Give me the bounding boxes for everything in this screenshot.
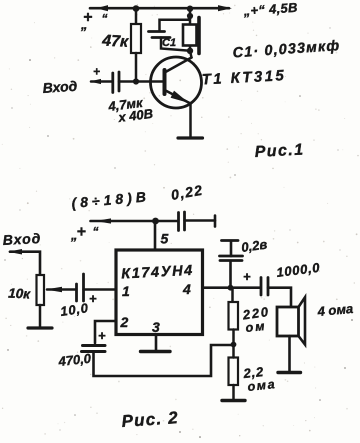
wire: C4 to pin 1 — [84, 288, 117, 291]
potentiometer wiper arrowhead — [46, 287, 63, 292]
ground (R5) — [222, 399, 245, 402]
wire: C1 bottom loop — [161, 38, 190, 51]
svg-text:5: 5 — [161, 231, 169, 247]
wire: emitter to ground — [189, 103, 192, 137]
svg-text:Рис. 2: Рис. 2 — [121, 408, 179, 431]
label: „+" near left arrow — [80, 9, 108, 32]
wire: pin 5 lead — [154, 221, 157, 250]
svg-text:Вход: Вход — [2, 230, 41, 248]
capacitor C4 10,0 plates — [75, 284, 78, 301]
svg-text:2: 2 — [120, 314, 129, 330]
wire: 0,2 cap upper lead — [230, 241, 233, 256]
transistor T1 base bar — [163, 70, 167, 94]
capacitor C1 bottom plate — [152, 36, 170, 39]
wire: speaker to ground — [288, 336, 291, 371]
node: supply / pin5 junction — [152, 218, 159, 225]
capacitor C6 0,2 bottom plate — [220, 259, 242, 262]
resistor R5 2,2 body — [229, 358, 239, 386]
svg-text:10к: 10к — [8, 286, 32, 302]
svg-text:+: + — [98, 328, 106, 343]
svg-text:3: 3 — [152, 319, 160, 335]
svg-text:4 ома: 4 ома — [316, 301, 354, 319]
resistor R4 220 ом body — [229, 302, 239, 330]
capacitor C3 0,22 plates — [177, 213, 180, 231]
label: „+" fig2 — [70, 224, 99, 243]
wire: pin 2 lead — [95, 321, 116, 343]
label: „+" 4,5В supply voltage — [242, 0, 298, 19]
capacitor C2 4,7мк x 40В plates — [111, 73, 114, 93]
speaker BA1 body — [277, 307, 299, 336]
wire: C5 bottom to feedback node — [94, 345, 233, 376]
wire: R5 to ground — [232, 385, 235, 400]
wire: R4 to feedback node — [232, 330, 235, 345]
svg-text:Вход: Вход — [42, 78, 78, 96]
terminal bar above 0,2 cap — [222, 239, 239, 242]
capacitor C6 0,2 top plate — [220, 255, 243, 258]
node: rail / R1 junction — [133, 5, 140, 12]
node: feedback junction — [231, 342, 237, 348]
terminal bar at 0,22 lead end — [214, 216, 217, 227]
wire: fig2 supply lead — [91, 220, 179, 223]
transistor T1 КТ315 circle — [151, 57, 202, 108]
wire: R2 to collector node — [189, 46, 192, 51]
svg-text:+: + — [243, 269, 251, 284]
svg-text:1: 1 — [122, 283, 130, 299]
wire: node to R5 — [232, 345, 235, 358]
wire: 0,22 right lead — [185, 219, 216, 222]
wire: pot to ground — [39, 305, 42, 327]
capacitor C1 top plate — [149, 30, 165, 33]
speaker BA1 cone — [299, 297, 306, 344]
svg-text:С1: С1 — [162, 37, 176, 49]
svg-text:ома: ома — [247, 377, 277, 394]
resistor R1 47k body — [131, 24, 141, 53]
wire: C2 to transistor base — [119, 80, 163, 83]
node: C1 top wire junction — [187, 13, 193, 19]
svg-text:+: + — [77, 224, 86, 241]
potentiometer R3 10к body — [37, 275, 45, 305]
fig2 input arrowhead — [8, 249, 22, 255]
wire: pin 3 to ground — [155, 335, 158, 351]
wire: collector node to transistor — [190, 51, 192, 58]
node: output junction — [228, 285, 234, 291]
wire: R1 to base node — [135, 53, 138, 82]
supply rail right arrowhead — [218, 5, 232, 11]
wire: +4.5V supply rail (top) — [90, 7, 229, 10]
resistor R2 (collector load) body — [183, 25, 197, 46]
op-amp U1 К174УН4 box — [116, 250, 203, 335]
wire: output node to R4 — [231, 288, 234, 302]
wire: input lead — [91, 80, 112, 83]
capacitor C7 1000,0 plates — [260, 278, 263, 296]
svg-text:4: 4 — [182, 281, 191, 297]
potentiometer wiper wire — [47, 288, 76, 291]
svg-text:“: “ — [102, 12, 108, 26]
wire: C1 top loop — [160, 17, 190, 32]
svg-text:„: „ — [80, 17, 88, 32]
ground (speaker) — [278, 371, 301, 374]
input arrowhead — [90, 79, 102, 84]
ground (potentiometer) — [28, 326, 52, 329]
wire: 0,2 cap lower lead — [229, 261, 232, 288]
svg-text:Рис.1: Рис.1 — [254, 141, 305, 161]
ground (fig1 emitter) — [178, 136, 203, 139]
node: collector junction — [187, 48, 193, 54]
capacitor C5 470,0 top plate — [83, 344, 106, 347]
transistor T1 emitter stroke — [166, 91, 190, 104]
svg-text:„: „ — [70, 228, 78, 243]
svg-text:+: + — [93, 65, 100, 79]
svg-text:+: + — [89, 291, 97, 306]
svg-text:“: “ — [93, 225, 99, 239]
capacitor bar beside R2 — [197, 18, 201, 54]
fig2 supply arrowhead — [95, 218, 111, 223]
transistor T1 collector stroke — [166, 58, 192, 73]
wire: pin 4 output lead — [203, 286, 261, 289]
capacitor C5 470,0 bottom plate — [82, 350, 106, 353]
ground (pin 3) — [141, 350, 171, 353]
svg-text:47к: 47к — [101, 32, 130, 50]
wire: rail to R1 — [135, 8, 138, 24]
wire: fig2 input lead — [10, 252, 40, 275]
wire: C7 to speaker — [268, 288, 291, 309]
node: base / R1 junction — [133, 78, 139, 84]
svg-text:ом: ом — [245, 319, 267, 335]
emitter arrowhead — [171, 91, 189, 103]
wire: rail junction down to R2 — [189, 8, 192, 24]
node: rail / R2 junction — [187, 6, 193, 12]
supply rail left arrowhead — [96, 5, 108, 11]
